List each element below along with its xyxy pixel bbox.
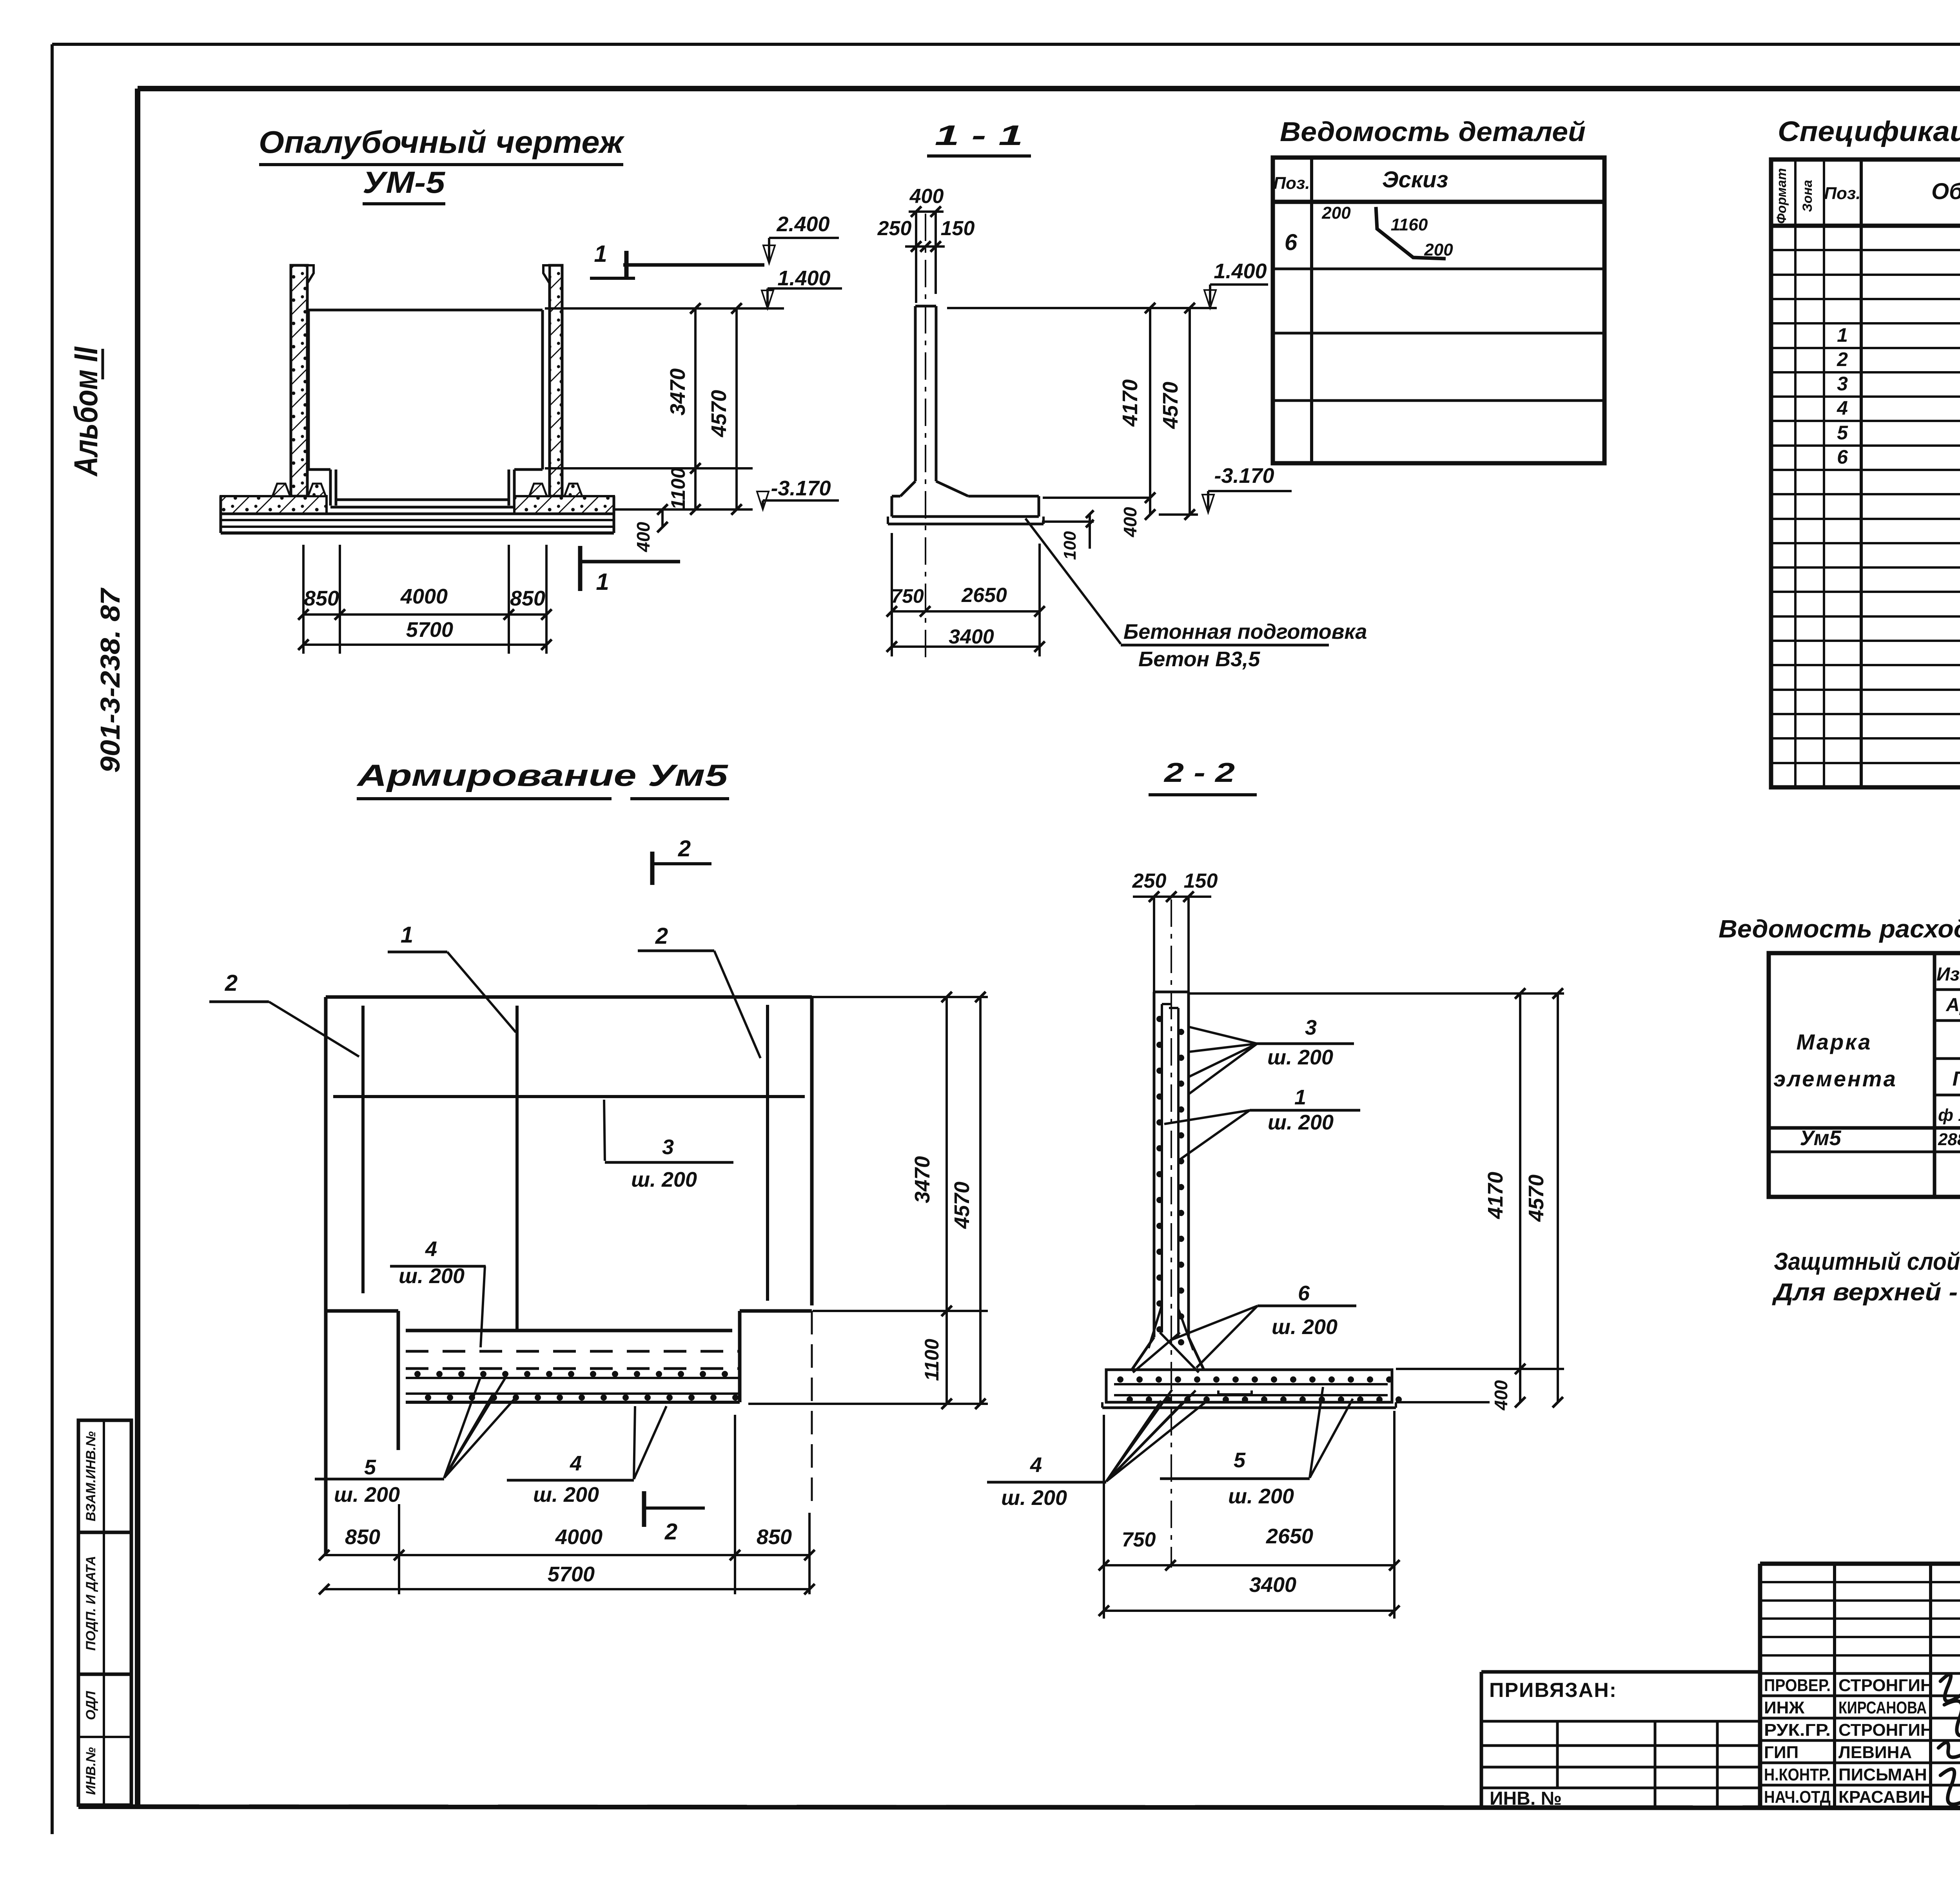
svg-text:4170: 4170 (1118, 379, 1142, 427)
svg-text:3: 3 (1837, 373, 1848, 395)
svg-text:Формат: Формат (1774, 168, 1789, 224)
svg-text:750: 750 (1122, 1528, 1156, 1551)
svg-text:Поз.: Поз. (1273, 174, 1310, 193)
svg-text:элемента: элемента (1773, 1066, 1897, 1091)
svg-text:3: 3 (662, 1135, 674, 1159)
svg-text:3: 3 (1305, 1016, 1317, 1039)
svg-text:1160: 1160 (1391, 215, 1428, 234)
svg-text:3470: 3470 (911, 1156, 934, 1203)
svg-text:5700: 5700 (406, 618, 453, 642)
svg-text:850: 850 (345, 1525, 380, 1549)
svg-text:ВЗАМ.ИНВ.№: ВЗАМ.ИНВ.№ (83, 1431, 98, 1521)
svg-text:2: 2 (664, 1519, 677, 1545)
svg-text:4570: 4570 (1159, 382, 1182, 429)
svg-text:ш. 200: ш. 200 (1268, 1111, 1334, 1134)
svg-text:1.400: 1.400 (777, 266, 830, 290)
svg-text:ш. 200: ш. 200 (631, 1168, 697, 1191)
svg-text:4: 4 (425, 1237, 437, 1261)
svg-text:6: 6 (1285, 230, 1298, 255)
svg-text:ш. 200: ш. 200 (1228, 1485, 1294, 1508)
svg-text:Для верхней - 25мм: Для верхней - 25мм (1771, 1279, 1960, 1306)
svg-text:3400: 3400 (949, 625, 994, 648)
svg-text:ОДЛ: ОДЛ (83, 1691, 98, 1720)
svg-text:ИНЖ: ИНЖ (1764, 1698, 1804, 1717)
svg-text:ПРОВЕР.: ПРОВЕР. (1764, 1676, 1831, 1695)
svg-text:1: 1 (1837, 324, 1848, 346)
svg-text:2650: 2650 (961, 584, 1007, 607)
svg-text:-3.170: -3.170 (771, 477, 831, 500)
svg-text:Обозначение: Обозначение (1931, 179, 1960, 204)
svg-text:ПИСЬМАН: ПИСЬМАН (1838, 1765, 1927, 1784)
svg-text:РУК.ГР.: РУК.ГР. (1764, 1720, 1831, 1740)
svg-text:200: 200 (1321, 203, 1351, 223)
svg-text:4: 4 (1030, 1453, 1042, 1477)
svg-text:Эскиз: Эскиз (1382, 167, 1448, 192)
svg-text:Спецификация к монолитному уча: Спецификация к монолитному участку УМ5 (1778, 116, 1960, 147)
svg-text:ИНВ.№: ИНВ.№ (83, 1747, 98, 1795)
svg-text:ш. 200: ш. 200 (533, 1483, 599, 1506)
svg-text:Арматура класса: Арматура класса (1945, 995, 1960, 1015)
svg-text:ГОСТ 5781- 82: ГОСТ 5781- 82 (1953, 1068, 1960, 1090)
svg-text:250: 250 (1132, 870, 1167, 892)
svg-text:850: 850 (510, 587, 545, 610)
svg-text:2: 2 (225, 970, 238, 996)
svg-text:2: 2 (1837, 348, 1848, 370)
svg-text:ш. 200: ш. 200 (1272, 1315, 1338, 1339)
svg-text:4570: 4570 (950, 1182, 974, 1229)
svg-text:ГИП: ГИП (1764, 1743, 1798, 1762)
svg-text:288.4: 288.4 (1938, 1130, 1960, 1149)
svg-text:850: 850 (757, 1525, 792, 1549)
svg-text:Ведомость расхода стали на оди: Ведомость расхода стали на один элемент.… (1719, 915, 1960, 943)
svg-text:4: 4 (1837, 397, 1848, 419)
svg-text:100: 100 (1060, 531, 1080, 560)
svg-text:400: 400 (1491, 1380, 1511, 1410)
svg-text:Ум5: Ум5 (1800, 1126, 1841, 1150)
svg-text:5700: 5700 (548, 1563, 595, 1586)
svg-text:ш. 200: ш. 200 (399, 1264, 465, 1288)
svg-text:2650: 2650 (1266, 1525, 1313, 1548)
svg-text:КИРСАНОВА: КИРСАНОВА (1838, 1698, 1927, 1717)
svg-text:ЛЕВИНА: ЛЕВИНА (1838, 1743, 1912, 1762)
svg-text:4000: 4000 (400, 585, 448, 608)
svg-text:НАЧ.ОТД: НАЧ.ОТД (1764, 1787, 1831, 1807)
svg-text:Изделия арматурные: Изделия арматурные (1936, 964, 1960, 985)
svg-text:-3.170: -3.170 (1214, 464, 1274, 488)
svg-text:Опалубочный чертеж: Опалубочный чертеж (259, 125, 625, 160)
svg-text:150: 150 (1184, 870, 1218, 892)
svg-text:1.400: 1.400 (1214, 259, 1267, 283)
svg-text:400: 400 (1120, 507, 1140, 537)
svg-text:3470: 3470 (666, 368, 690, 415)
svg-text:ш. 200: ш. 200 (1001, 1486, 1067, 1510)
svg-text:ф 14: ф 14 (1938, 1106, 1960, 1125)
svg-text:Зона: Зона (1800, 180, 1815, 212)
svg-text:400: 400 (909, 185, 944, 208)
svg-text:1100: 1100 (921, 1339, 943, 1381)
svg-text:5: 5 (1234, 1448, 1246, 1472)
svg-text:5: 5 (1837, 422, 1848, 444)
svg-text:ш. 200: ш. 200 (334, 1483, 400, 1506)
svg-text:Поз.: Поз. (1824, 184, 1860, 203)
svg-text:Альбом II: Альбом II (67, 346, 104, 477)
svg-text:ИНВ. №: ИНВ. № (1490, 1788, 1562, 1809)
svg-text:Ведомость деталей: Ведомость деталей (1280, 116, 1586, 147)
svg-text:150: 150 (941, 217, 975, 240)
svg-text:750: 750 (891, 585, 924, 607)
svg-text:1: 1 (594, 241, 607, 267)
svg-text:1 - 1: 1 - 1 (935, 120, 1023, 151)
svg-text:6: 6 (1837, 446, 1848, 468)
svg-text:6: 6 (1298, 1282, 1310, 1305)
svg-text:Марка: Марка (1797, 1030, 1872, 1054)
svg-text:2.400: 2.400 (776, 212, 829, 236)
svg-text:1: 1 (1294, 1086, 1306, 1109)
svg-text:200: 200 (1424, 240, 1453, 259)
svg-text:СТРОНГИН: СТРОНГИН (1838, 1720, 1933, 1740)
svg-text:ПОДП. И ДАТА: ПОДП. И ДАТА (83, 1556, 98, 1651)
svg-text:4000: 4000 (555, 1525, 603, 1549)
svg-text:2: 2 (655, 923, 668, 949)
svg-text:5: 5 (364, 1456, 376, 1479)
svg-text:СТРОНГИН: СТРОНГИН (1838, 1676, 1933, 1695)
svg-text:1: 1 (401, 922, 413, 948)
svg-text:901-3-238. 87: 901-3-238. 87 (95, 587, 125, 773)
svg-text:4570: 4570 (707, 390, 731, 437)
svg-text:3400: 3400 (1249, 1573, 1296, 1597)
svg-text:Защитный слой для нижней арма: Защитный слой для нижней арматуры - 35мм… (1774, 1248, 1960, 1275)
svg-text:Армирование Ум5: Армирование Ум5 (356, 758, 729, 792)
svg-text:4: 4 (570, 1452, 582, 1475)
svg-text:4570: 4570 (1524, 1175, 1548, 1222)
svg-text:ПРИВЯЗАН:: ПРИВЯЗАН: (1489, 1679, 1617, 1702)
svg-text:850: 850 (304, 587, 339, 610)
svg-text:2 - 2: 2 - 2 (1163, 757, 1235, 788)
svg-text:250: 250 (877, 217, 912, 240)
svg-text:1100: 1100 (667, 468, 689, 510)
svg-text:2: 2 (678, 836, 691, 861)
svg-text:ш. 200: ш. 200 (1267, 1046, 1333, 1069)
svg-text:Бетонная подготовка: Бетонная подготовка (1123, 620, 1367, 644)
svg-text:4170: 4170 (1484, 1172, 1507, 1219)
svg-text:Н.КОНТР.: Н.КОНТР. (1764, 1765, 1831, 1784)
svg-text:УМ-5: УМ-5 (363, 165, 446, 199)
svg-text:КРАСАВИН: КРАСАВИН (1838, 1787, 1933, 1807)
svg-text:400: 400 (633, 522, 653, 552)
svg-text:Бетон В3,5: Бетон В3,5 (1138, 647, 1260, 671)
svg-text:1: 1 (596, 569, 609, 595)
